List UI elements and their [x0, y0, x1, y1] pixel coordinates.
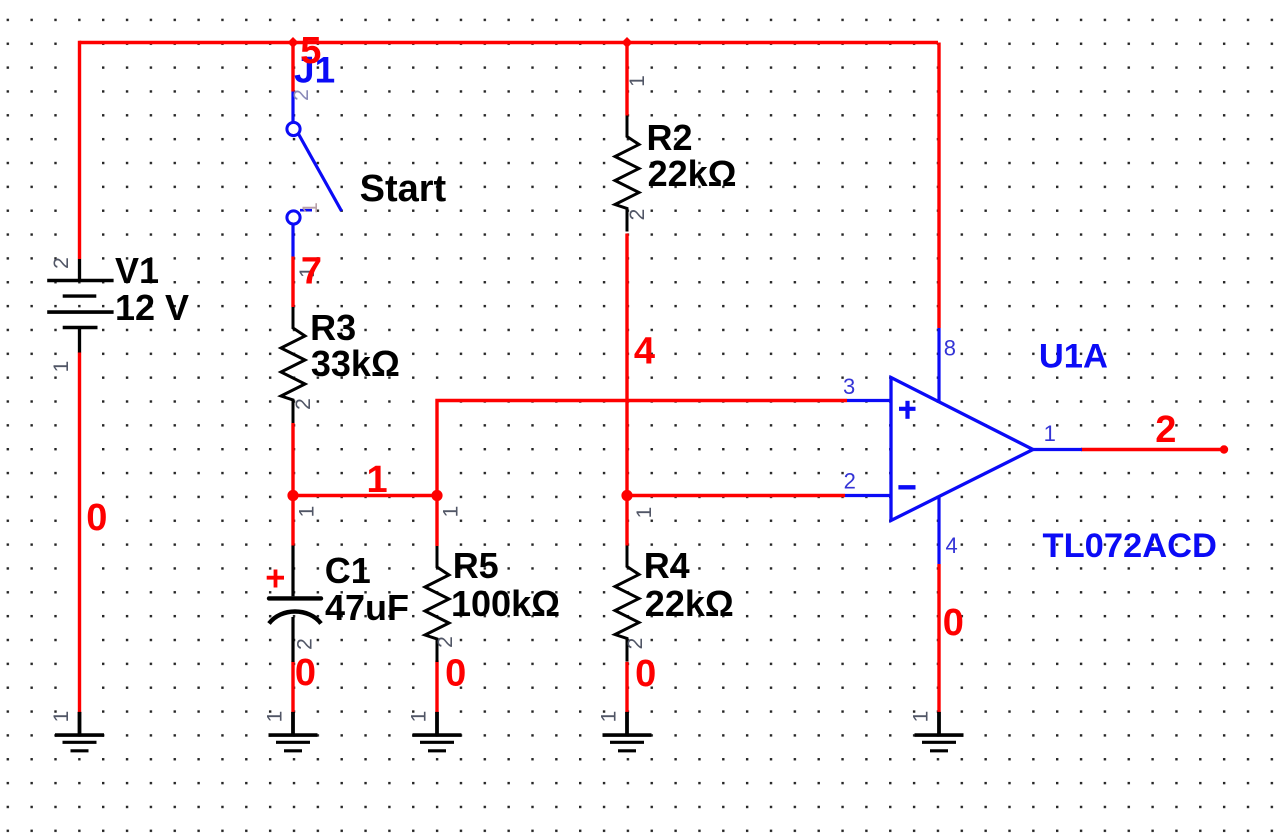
wire top rail to switch pin2	[291, 43, 294, 92]
svg-text:8: 8	[944, 336, 956, 361]
svg-text:TL072ACD: TL072ACD	[1043, 527, 1217, 565]
svg-text:C1: C1	[325, 550, 371, 591]
op-amp input/output/power leads	[845, 328, 1082, 564]
svg-text:0: 0	[86, 497, 107, 539]
svg-text:1: 1	[263, 711, 286, 723]
svg-text:1: 1	[407, 711, 430, 723]
wire top rail to op-amp pin 8	[937, 43, 940, 329]
svg-text:R4: R4	[644, 545, 690, 586]
svg-text:4: 4	[634, 330, 655, 372]
wire battery pin1 to ground	[78, 352, 81, 713]
svg-text:2: 2	[50, 257, 73, 269]
svg-text:100kΩ: 100kΩ	[451, 583, 560, 624]
wire R3 to node 1	[291, 423, 294, 496]
resistor R3	[281, 307, 305, 423]
C1 plus polarity mark	[267, 570, 284, 588]
svg-text:1: 1	[597, 711, 620, 723]
wire top rail V+	[80, 41, 939, 44]
wire op-amp pin 4 to ground	[937, 564, 940, 713]
ground at battery	[55, 712, 104, 751]
svg-text:2: 2	[626, 209, 649, 221]
resistor R4	[615, 546, 639, 662]
op-amp plus sign	[899, 401, 916, 419]
svg-text:R2: R2	[647, 117, 693, 158]
svg-text:22kΩ: 22kΩ	[648, 153, 737, 194]
wire junction to op-amp inverting input	[627, 494, 845, 497]
wire top rail to R2	[625, 43, 628, 116]
wire node 1 horizontal	[293, 494, 437, 497]
wire op-amp output node 2	[1081, 448, 1224, 451]
wire node 1 up to op-amp noninverting input	[437, 401, 847, 496]
svg-text:1: 1	[626, 75, 649, 87]
svg-text:1: 1	[50, 361, 73, 373]
svg-text:1: 1	[440, 506, 463, 518]
svg-text:2: 2	[1155, 409, 1176, 451]
svg-text:1: 1	[299, 202, 322, 214]
svg-text:1: 1	[367, 459, 388, 501]
svg-text:Start: Start	[360, 168, 447, 210]
svg-text:R3: R3	[310, 307, 356, 348]
svg-text:1: 1	[296, 506, 319, 518]
battery V1	[47, 259, 113, 353]
svg-text:12 V: 12 V	[115, 287, 189, 328]
wire R4 to ground	[625, 662, 628, 713]
svg-text:5: 5	[300, 30, 321, 72]
junction node at R4	[621, 490, 632, 501]
junction node 1 right	[431, 490, 442, 501]
wire node 1 to R5	[435, 496, 438, 547]
svg-text:0: 0	[445, 652, 466, 694]
svg-text:0: 0	[635, 653, 656, 695]
switch J1	[287, 92, 342, 257]
svg-text:2: 2	[290, 89, 313, 101]
svg-text:1: 1	[50, 711, 73, 723]
svg-text:V1: V1	[115, 250, 159, 291]
svg-text:3: 3	[843, 374, 855, 399]
svg-text:2: 2	[292, 398, 315, 410]
svg-text:47uF: 47uF	[325, 587, 409, 628]
ground at C1	[269, 712, 318, 751]
resistor R2	[615, 116, 639, 232]
wire junction to R4	[625, 496, 628, 546]
wire node 1 to C1	[291, 496, 294, 546]
ground at R4	[603, 712, 652, 751]
svg-text:1: 1	[633, 507, 656, 519]
svg-text:4: 4	[946, 533, 958, 558]
svg-text:U1A: U1A	[1039, 338, 1108, 376]
output terminal dot node 2	[1220, 445, 1228, 453]
ground at op-amp	[915, 712, 964, 751]
svg-text:22kΩ: 22kΩ	[645, 583, 734, 624]
wire node 4 R2 to R4 junction	[625, 234, 628, 496]
svg-text:0: 0	[943, 602, 964, 644]
wire left rail to battery pin2	[78, 41, 81, 259]
svg-text:2: 2	[844, 469, 856, 494]
op-amp minus sign	[898, 485, 915, 489]
svg-text:1: 1	[1044, 421, 1056, 446]
svg-text:2: 2	[294, 638, 317, 650]
ground at R5	[413, 712, 462, 751]
wire C1 to ground	[291, 662, 294, 714]
svg-text:1: 1	[909, 711, 932, 723]
junction node 1 left	[287, 490, 298, 501]
svg-text:7: 7	[301, 251, 322, 293]
wire R5 to ground	[435, 661, 438, 714]
svg-text:0: 0	[295, 652, 316, 694]
wire node 7 switch to R3	[291, 256, 294, 307]
resistor R5	[425, 546, 449, 662]
junction top rail / R2	[622, 37, 633, 48]
svg-text:2: 2	[434, 636, 457, 648]
op-amp U1A triangle	[891, 378, 1033, 521]
svg-text:R5: R5	[453, 545, 499, 586]
junction top rail / switch	[288, 37, 299, 48]
svg-text:33kΩ: 33kΩ	[311, 343, 400, 384]
svg-text:2: 2	[624, 638, 647, 650]
capacitor C1	[269, 546, 321, 663]
